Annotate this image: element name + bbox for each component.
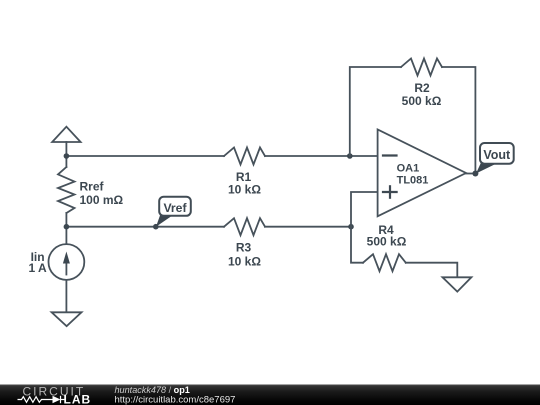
svg-text:R3: R3 bbox=[236, 240, 252, 254]
wire: Iin bottom to ground bbox=[65, 280, 67, 312]
svg-text:Vout: Vout bbox=[483, 148, 511, 162]
wire: Rref bottom to Vref node bbox=[65, 213, 67, 244]
svg-text:500 kΩ: 500 kΩ bbox=[367, 235, 407, 249]
resistor R1 bbox=[224, 148, 265, 165]
wire: R4 to ground bbox=[406, 263, 458, 278]
svg-text:Vref: Vref bbox=[163, 201, 187, 215]
svg-text:1 A: 1 A bbox=[28, 261, 47, 275]
wire: R3 to plus node bbox=[265, 226, 351, 228]
node Vref flag bbox=[153, 197, 191, 230]
footer bar bbox=[0, 385, 540, 405]
resistor R3 bbox=[224, 218, 265, 235]
ground (bottom-right) bbox=[443, 277, 472, 291]
svg-text:10 kΩ: 10 kΩ bbox=[228, 183, 261, 197]
resistor R4 bbox=[363, 254, 406, 271]
node Vout flag bbox=[476, 143, 514, 174]
wire: plus node up to op-amp plus input bbox=[351, 192, 378, 227]
node junction: non-inverting node bbox=[348, 224, 354, 230]
svg-text:10 kΩ: 10 kΩ bbox=[228, 254, 261, 268]
svg-text:LAB: LAB bbox=[64, 393, 92, 405]
svg-text:http://circuitlab.com/c8e7697: http://circuitlab.com/c8e7697 bbox=[115, 395, 236, 405]
wire: feedback left vertical bbox=[350, 67, 401, 156]
wire: plus node down to R4 bbox=[351, 227, 363, 263]
svg-text:TL081: TL081 bbox=[397, 175, 429, 187]
wire: feedback right vertical to output bbox=[442, 67, 475, 174]
wire: top node vertical to Rref bbox=[65, 156, 67, 167]
wire: op-amp output stub bbox=[466, 173, 475, 175]
op-amp OA1 bbox=[378, 130, 466, 217]
footer credit text bbox=[115, 385, 236, 405]
svg-text:500 kΩ: 500 kΩ bbox=[402, 94, 442, 108]
node junction: output node bbox=[472, 171, 478, 177]
CircuitLab logo wordmark bbox=[18, 384, 92, 405]
svg-text:huntackk478 / op1: huntackk478 / op1 bbox=[115, 385, 190, 395]
node junction Vref-left bbox=[64, 224, 70, 230]
current source Iin bbox=[49, 244, 85, 280]
node junction: inverting input node bbox=[347, 153, 353, 159]
svg-text:Rref: Rref bbox=[80, 180, 105, 194]
wire: R1 to op-amp minus input bbox=[265, 155, 378, 157]
power arrow (top net marker) bbox=[52, 127, 80, 156]
resistor R2 bbox=[401, 59, 442, 76]
resistor Rref bbox=[58, 167, 75, 213]
wire: Vref net horizontal to R3 bbox=[66, 226, 224, 228]
svg-text:OA1: OA1 bbox=[397, 163, 420, 175]
node junction top-left bbox=[64, 153, 70, 159]
wire: top node to R1 bbox=[66, 155, 224, 157]
ground (bottom-left) bbox=[52, 312, 82, 326]
svg-text:100 mΩ: 100 mΩ bbox=[80, 193, 124, 207]
